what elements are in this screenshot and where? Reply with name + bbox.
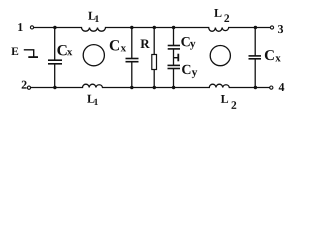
- junction dots top rail: [53, 26, 257, 29]
- svg-text:4: 4: [278, 80, 284, 94]
- svg-text:C: C: [181, 63, 191, 78]
- wire top rail with inductor L1 and L2 windings: [34, 28, 271, 32]
- resistor R branch: [152, 28, 157, 88]
- wire bottom rail with inductor L1 and L2 windings: [31, 84, 270, 87]
- svg-text:2: 2: [21, 78, 27, 92]
- svg-text:C: C: [264, 48, 275, 64]
- common-mode core circle of L1: [83, 45, 104, 66]
- capacitor Cx first branch: [48, 28, 62, 88]
- earth stub between Cy pair: [174, 54, 179, 62]
- terminal 1: [30, 26, 33, 29]
- capacitor Cx second branch: [126, 28, 139, 88]
- terminal 3: [270, 26, 273, 29]
- svg-text:E: E: [11, 46, 19, 58]
- capacitor Cy branch (two in series): [168, 28, 181, 88]
- svg-text:2: 2: [231, 100, 237, 112]
- svg-text:x: x: [67, 46, 73, 58]
- svg-text:y: y: [192, 67, 198, 79]
- svg-text:1: 1: [17, 20, 23, 34]
- svg-text:x: x: [121, 42, 127, 54]
- svg-text:2: 2: [224, 13, 230, 25]
- svg-text:L: L: [214, 6, 222, 20]
- svg-text:L: L: [221, 92, 229, 106]
- capacitor Cx third branch: [249, 28, 262, 88]
- terminal 4: [270, 86, 273, 89]
- svg-text:1: 1: [94, 98, 99, 108]
- earth symbol at E: [24, 50, 38, 57]
- svg-text:1: 1: [94, 14, 99, 25]
- svg-text:3: 3: [277, 22, 283, 36]
- junction dots bottom rail: [53, 86, 257, 89]
- svg-text:C: C: [109, 37, 120, 54]
- svg-text:R: R: [140, 36, 150, 51]
- svg-text:y: y: [190, 38, 196, 50]
- svg-text:x: x: [275, 52, 281, 64]
- terminal 2: [27, 86, 30, 89]
- common-mode core circle of L2: [210, 46, 230, 66]
